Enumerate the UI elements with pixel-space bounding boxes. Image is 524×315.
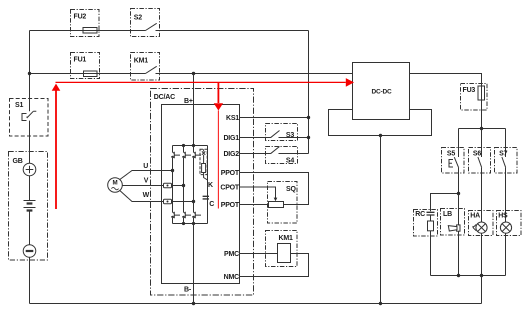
red flow line to DC-DC: [56, 81, 346, 83]
lamp HS box: [497, 211, 522, 236]
wire S5 out with branch to RC: [431, 168, 459, 212]
wire accessory bottom rail: [431, 275, 506, 277]
node top rail leg3: [192, 144, 195, 147]
svg-text:SQ: SQ: [286, 186, 296, 193]
fuse FU2 box: [71, 10, 100, 37]
node LB bottom: [457, 274, 460, 277]
node DC-DC output: [379, 134, 382, 137]
svg-text:S1: S1: [15, 102, 23, 109]
wire S1 to battery: [29, 121, 31, 164]
svg-text:KM1: KM1: [134, 58, 148, 65]
node KS1 junction: [307, 116, 310, 119]
contact KM1 box: [131, 53, 160, 81]
fuse FU1 element: [84, 71, 98, 77]
battery GB plus terminal: [23, 163, 36, 176]
wire B- from bottom rail to bus: [193, 224, 195, 304]
pin CPOT wire to wiper: [240, 187, 276, 198]
fuse FU3 element: [478, 86, 485, 100]
node U to leg1: [171, 169, 174, 172]
node bottom rail leg2: [182, 222, 185, 225]
pin PPOT upper wire loop: [240, 173, 309, 205]
svg-text:M: M: [113, 180, 118, 187]
wire bottom bus: [30, 303, 482, 305]
switch S5 blade: [454, 157, 458, 168]
wire RC cap to resistor: [430, 215, 432, 221]
inverter leg1 wire: [172, 146, 174, 224]
svg-text:PPOT: PPOT: [221, 170, 240, 177]
wire inverter right branch: [207, 146, 209, 224]
svg-text:HA: HA: [470, 212, 480, 219]
pin DIG2 wire through S4: [240, 153, 309, 155]
pin PMC wire: [240, 253, 278, 255]
contactor K dashed box: [200, 149, 207, 174]
converter DC-DC box: [353, 63, 410, 120]
node junction left bus / FU1 wire: [28, 72, 31, 75]
horn LB symbol: [448, 225, 460, 231]
pin KS1 wire: [240, 117, 309, 119]
fuse FU2 element: [83, 28, 97, 34]
switch S7 box: [495, 148, 518, 174]
node V to leg2: [182, 184, 185, 187]
wire battery to bottom bus: [29, 257, 31, 303]
svg-text:PMC: PMC: [224, 251, 239, 258]
contactor K contact glyph: [202, 149, 205, 163]
switch S3 blade: [271, 131, 280, 138]
inverter leg3 wire: [193, 146, 195, 224]
controller inner solid box: [162, 105, 240, 284]
svg-text:RC: RC: [415, 211, 425, 218]
pin DIG1 wire through S3: [240, 137, 309, 139]
red flow arrow up along battery: [55, 90, 57, 209]
pin PPOT lower wire: [240, 204, 269, 206]
svg-text:S3: S3: [286, 132, 294, 139]
inverter leg2 wire: [183, 146, 185, 224]
resistor in K branch: [202, 164, 206, 173]
contact KM1 blade: [146, 66, 157, 73]
wire phase U: [120, 171, 173, 180]
switch S6 blade: [478, 157, 482, 168]
pin NMC wire loop to coil: [240, 254, 309, 277]
svg-text:S4: S4: [286, 157, 294, 164]
svg-text:KM1: KM1: [279, 235, 293, 242]
horn mark HA: [473, 225, 477, 231]
svg-text:V: V: [144, 177, 149, 184]
wire rail to S7: [505, 129, 507, 158]
svg-text:DIG1: DIG1: [223, 135, 239, 142]
wire rail to bottom bus: [481, 276, 483, 304]
svg-text:B-: B-: [184, 287, 192, 294]
wire rail to S5: [458, 129, 460, 158]
node S5 branch: [457, 192, 460, 195]
switch S5 box: [442, 148, 465, 174]
coil KM1 element: [278, 244, 291, 263]
capacitor C plates: [203, 196, 209, 199]
switch S4 blade: [271, 147, 280, 154]
switch S1 box: [10, 99, 49, 137]
svg-text:KS1: KS1: [226, 115, 239, 122]
lamp HA box: [469, 211, 494, 236]
wire RC to rail: [430, 231, 432, 276]
transistor VT6 bottom leg3: [192, 212, 201, 218]
wire phase W: [120, 191, 194, 202]
wire DC-DC output down: [380, 136, 382, 304]
switch S5 actuator E: [449, 160, 453, 168]
node bottom rail leg3: [192, 222, 195, 225]
node W to leg3: [192, 200, 195, 203]
potentiometer SQ box: [268, 182, 298, 224]
capacitor in RC: [427, 212, 435, 215]
transistor VT5 bottom leg2: [182, 212, 191, 218]
transistor VT3 top leg3: [192, 152, 201, 158]
inverter top rail: [173, 145, 208, 147]
fuse FU1 box: [71, 53, 100, 79]
svg-text:U: U: [143, 163, 148, 170]
wire plus terminal to cells: [29, 176, 31, 201]
inverter bottom rail: [173, 223, 208, 225]
wire vertical bus right of S2 down to S4 level: [308, 31, 310, 154]
svg-text:PPOT: PPOT: [221, 202, 240, 209]
node FU3 to rail: [480, 127, 483, 130]
node top rail leg2: [182, 144, 185, 147]
svg-text:S2: S2: [134, 15, 142, 22]
potentiometer SQ element: [269, 202, 284, 208]
horn LB box: [441, 209, 465, 236]
motor M: [108, 178, 123, 193]
svg-text:LB: LB: [443, 211, 452, 218]
switch S1 actuator bracket: [22, 114, 28, 121]
switch S2 blade: [146, 23, 157, 30]
wire phase V: [122, 185, 183, 187]
wire S6 down through HA: [481, 168, 483, 276]
switch S6 box: [469, 148, 491, 174]
wire cells to minus terminal: [29, 211, 31, 245]
svg-text:FU3: FU3: [463, 87, 476, 94]
wire S5 down through LB: [458, 194, 460, 276]
node HA bottom: [480, 274, 483, 277]
svg-text:K: K: [208, 182, 213, 189]
switch S4 box: [266, 147, 298, 164]
svg-text:S7: S7: [499, 150, 507, 157]
red flow arrow down into inverter: [217, 82, 219, 103]
fuse FU3 box: [461, 84, 488, 111]
svg-text:B+: B+: [184, 98, 193, 105]
wire left bus vertical top: [29, 31, 31, 112]
battery GB cells: [24, 201, 36, 208]
svg-text:CPOT: CPOT: [220, 185, 240, 192]
battery GB minus terminal: [23, 245, 36, 258]
svg-text:W: W: [143, 192, 150, 199]
svg-text:S5: S5: [447, 150, 455, 157]
transistor VT2 top leg2: [182, 152, 191, 158]
wire S7 down through HS: [505, 168, 507, 276]
wire accessory feed rail: [459, 128, 506, 130]
transistor VT1 top leg1: [171, 152, 180, 158]
node DIG1 junction: [307, 136, 310, 139]
switch S3 box: [266, 124, 298, 141]
sensor on phase W: [164, 199, 172, 204]
lamp HA circle: [476, 222, 487, 233]
wire DC-DC right to FU3: [410, 74, 482, 129]
svg-text:DC-DC: DC-DC: [372, 89, 392, 96]
wire B+ drop from KM1 wire into inverter: [193, 74, 195, 146]
potentiometer wiper arrowhead: [274, 198, 278, 202]
wire S6 entry: [481, 129, 483, 158]
converter DC-DC pedestal: [329, 110, 432, 136]
svg-text:S6: S6: [473, 150, 481, 157]
coil KM1 box: [266, 231, 298, 267]
node junction DC-DC return on bottom bus: [379, 302, 382, 305]
node junction B- on bottom bus: [192, 302, 195, 305]
sensor on phase V: [164, 183, 172, 188]
controller DC/AC dash-dot box: [151, 89, 254, 296]
svg-text:C: C: [209, 201, 214, 208]
wire K branch bottom: [204, 173, 208, 181]
resistor in RC: [428, 221, 434, 231]
svg-text:FU2: FU2: [74, 14, 87, 21]
node junction B+ drop on KM1 wire: [192, 72, 195, 75]
svg-text:GB: GB: [13, 158, 23, 165]
snubber RC box: [414, 210, 438, 237]
svg-text:DC/AC: DC/AC: [154, 94, 175, 101]
wire second bus through FU1 to KM1: [30, 73, 353, 75]
svg-text:NMC: NMC: [224, 274, 239, 281]
svg-text:FU1: FU1: [74, 57, 87, 64]
transistor VT4 bottom leg1: [171, 212, 180, 218]
battery GB box: [9, 152, 48, 261]
wire top bus from left corner through FU2 to S2: [30, 30, 309, 32]
lamp HS circle: [500, 222, 511, 233]
switch S7 blade: [502, 157, 506, 168]
svg-text:DIG2: DIG2: [223, 151, 239, 158]
switch S1 blade: [27, 111, 37, 118]
switch S2 box: [131, 9, 160, 37]
svg-text:HS: HS: [498, 212, 508, 219]
